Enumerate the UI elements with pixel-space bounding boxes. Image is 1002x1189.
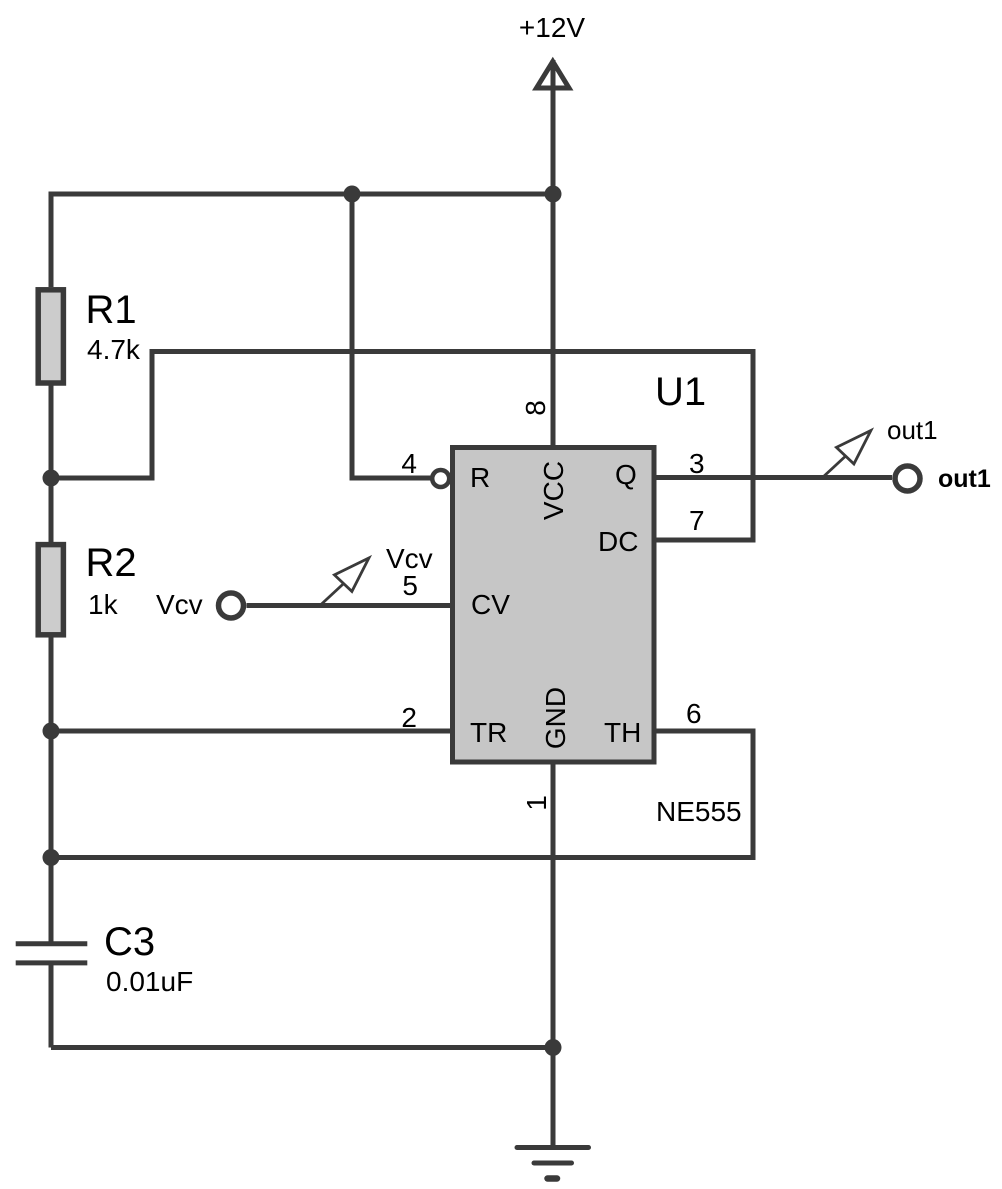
svg-text:1: 1 xyxy=(521,795,552,811)
wire R1 bottom to junction xyxy=(49,383,54,478)
svg-text:7: 7 xyxy=(689,505,705,536)
node junction top at x=553 xyxy=(545,186,562,203)
node junction R1/R2 xyxy=(43,470,60,487)
svg-text:C3: C3 xyxy=(104,920,155,964)
probe arrow out1 xyxy=(823,415,938,478)
port Vcv xyxy=(156,589,244,620)
wire pin 3 Q to out1 xyxy=(654,475,892,480)
svg-text:out1: out1 xyxy=(887,415,938,445)
svg-text:VCC: VCC xyxy=(538,461,569,520)
svg-text:CV: CV xyxy=(471,589,510,620)
svg-text:out1: out1 xyxy=(938,465,991,493)
wire left rail TR to TH junction xyxy=(49,731,54,858)
svg-text:Vcv: Vcv xyxy=(156,589,203,620)
pin 4 R inversion circle xyxy=(432,470,449,487)
node junction top at x=352 xyxy=(344,186,361,203)
wire top rail from R1 top to +12V rail xyxy=(51,194,553,287)
svg-text:GND: GND xyxy=(540,687,571,749)
svg-text:0.01uF: 0.01uF xyxy=(106,966,193,997)
resistor R1 xyxy=(38,288,141,383)
svg-text:DC: DC xyxy=(598,526,638,557)
svg-text:2: 2 xyxy=(401,702,417,733)
svg-text:Q: Q xyxy=(615,459,637,490)
wire R2 bottom to TR junction xyxy=(49,634,54,731)
svg-text:4.7k: 4.7k xyxy=(87,334,141,365)
node junction TH rail xyxy=(43,849,60,866)
power symbol +12V xyxy=(519,12,585,447)
probe arrow Vcv xyxy=(321,543,433,605)
svg-text:R2: R2 xyxy=(86,541,137,585)
svg-text:6: 6 xyxy=(686,698,702,729)
wire bottom rail C3 to ground rail xyxy=(51,1045,553,1050)
svg-text:TH: TH xyxy=(604,717,641,748)
op-amp U1 NE555 body xyxy=(453,370,742,827)
ground xyxy=(517,1148,589,1179)
wire Vcv to pin 5 xyxy=(247,603,453,608)
svg-text:8: 8 xyxy=(520,400,551,416)
svg-text:4: 4 xyxy=(401,448,417,479)
svg-text:TR: TR xyxy=(470,717,507,748)
svg-text:5: 5 xyxy=(402,570,418,601)
svg-text:R1: R1 xyxy=(86,288,137,332)
wire GND pin 1 down to ground xyxy=(551,762,556,1148)
resistor R2 xyxy=(38,541,136,635)
wire middle vertical to pin 4 xyxy=(352,194,431,478)
wire junction to R2 top xyxy=(49,478,54,545)
wire feedback loop 4.7k node to U1 box right rail and pin 7 xyxy=(51,352,753,541)
wire TH loop: pin 6 to bottom rail xyxy=(51,731,753,858)
svg-text:NE555: NE555 xyxy=(656,796,742,827)
svg-text:R: R xyxy=(470,462,490,493)
node junction TR xyxy=(43,723,60,740)
capacitor C3 xyxy=(16,858,193,1048)
svg-text:1k: 1k xyxy=(88,589,119,620)
svg-text:U1: U1 xyxy=(655,370,706,414)
svg-text:3: 3 xyxy=(689,448,705,479)
wire TR pin 2 xyxy=(51,729,452,734)
svg-text:+12V: +12V xyxy=(519,12,585,43)
port out1 xyxy=(895,465,991,493)
node junction ground rail xyxy=(545,1039,562,1056)
